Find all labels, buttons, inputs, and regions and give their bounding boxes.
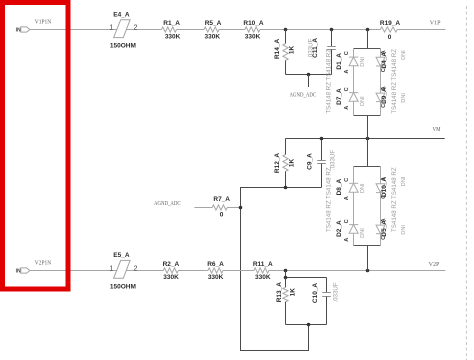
svg-text:330K: 330K — [205, 33, 221, 40]
svg-text:R2_A: R2_A — [163, 261, 180, 268]
diode D2_A (DNI) — [349, 225, 358, 234]
svg-text:AGND_ADC: AGND_ADC — [154, 200, 181, 207]
wire C10 top lead — [326, 278, 328, 293]
svg-text:TS4148 RZ: TS4148 RZ — [391, 167, 398, 199]
svg-text:1: 1 — [109, 25, 113, 32]
wire R2 to R6 — [178, 270, 208, 272]
wire rail to R14 top — [285, 30, 287, 44]
svg-text:A: A — [381, 50, 387, 54]
port V2P1N — [16, 268, 30, 274]
resistor R12_A (vertical) — [283, 155, 288, 172]
svg-text:TS4148 RZ: TS4148 RZ — [391, 200, 398, 232]
svg-text:R14_A: R14_A — [274, 38, 281, 59]
junction AGND stub — [307, 73, 311, 77]
svg-text:2: 2 — [134, 25, 138, 32]
wire R13 bottom lead — [285, 302, 287, 325]
junction top rail / C11 — [330, 28, 334, 32]
ferrite bead E5_A — [114, 260, 131, 278]
svg-text:1: 1 — [109, 266, 113, 273]
wire top rail: port to R1 — [30, 29, 161, 31]
svg-text:C: C — [381, 195, 387, 199]
svg-text:R1_A: R1_A — [163, 20, 180, 27]
wire bridge2 bottom — [354, 245, 381, 247]
wire R5 to R10 — [219, 29, 245, 31]
svg-text:IN: IN — [16, 28, 21, 34]
svg-text:C9_A: C9_A — [307, 153, 314, 170]
resistor R11_A — [254, 268, 269, 273]
svg-text:C: C — [344, 87, 350, 91]
svg-text:A: A — [381, 86, 387, 90]
svg-text:R12_A: R12_A — [274, 153, 281, 174]
svg-text:TS4148 RZ: TS4148 RZ — [326, 49, 333, 81]
resistor R13_A (vertical) — [283, 287, 288, 302]
diode D5_A (DNI) — [376, 225, 385, 234]
wire C9 top lead — [321, 139, 323, 161]
junction R7 / riser — [239, 206, 243, 210]
svg-text:.033UF: .033UF — [308, 38, 315, 59]
svg-text:TS4148 RZ: TS4148 RZ — [391, 49, 398, 81]
resistor R14_A (vertical) — [283, 44, 288, 61]
wire bridge1 right branch — [380, 49, 382, 116]
svg-text:D2_A: D2_A — [336, 220, 343, 237]
wire AGND_ADC to R7 — [194, 207, 212, 209]
wire R14 bottom — [285, 61, 287, 75]
wire feed top rail to bridge1 — [367, 30, 369, 49]
wire R13/C10 top joining — [286, 277, 327, 279]
svg-text:C: C — [381, 236, 387, 240]
diode D7_A — [349, 93, 358, 102]
wire VM rail — [286, 138, 445, 140]
svg-text:150OHM: 150OHM — [110, 283, 136, 290]
svg-text:330K: 330K — [255, 274, 271, 281]
diode D1_A — [349, 57, 358, 66]
wire bridge1 top — [354, 48, 381, 50]
svg-text:330K: 330K — [245, 33, 261, 40]
wire R1 to R5 — [177, 29, 205, 31]
svg-text:E4_A: E4_A — [113, 11, 130, 18]
diode D10_A (DNI) — [376, 184, 385, 193]
svg-text:A: A — [344, 238, 350, 242]
svg-text:C: C — [381, 104, 387, 108]
svg-text:1K: 1K — [290, 288, 297, 297]
svg-text:DNI: DNI — [360, 96, 366, 106]
wire feed bridge1 to bridge2 (through VM) — [367, 116, 369, 167]
svg-text:C: C — [344, 219, 350, 223]
svg-text:2: 2 — [134, 266, 138, 273]
wire C11 bottom lead — [331, 50, 333, 75]
svg-text:C: C — [344, 51, 350, 55]
ferrite bead E4_A — [114, 20, 131, 38]
svg-text:TS4148 RZ: TS4148 RZ — [391, 82, 398, 114]
svg-text:DNI: DNI — [360, 183, 366, 193]
svg-text:A: A — [381, 177, 387, 181]
svg-text:DNI: DNI — [401, 50, 407, 60]
svg-text:TS4148 RZ: TS4148 RZ — [326, 82, 333, 114]
svg-text:0: 0 — [388, 34, 392, 41]
svg-text:.033UF: .033UF — [333, 282, 340, 303]
resistor R19_A — [380, 27, 397, 32]
wire C11 top lead — [331, 30, 333, 47]
svg-text:TS4148 RZ: TS4148 RZ — [326, 167, 333, 199]
junction R12 bottom — [284, 186, 288, 190]
junction R13 top — [284, 276, 288, 280]
junction AGND riser / bottom combo — [307, 323, 311, 327]
resistor R6_A — [208, 268, 223, 273]
wire R12 top lead — [285, 139, 287, 155]
svg-text:A: A — [344, 106, 350, 110]
wire R14/C11 bottom joining — [286, 74, 332, 76]
wire R13/C10 bottom joining — [286, 324, 327, 326]
junction bottom rail / bridge feed — [366, 269, 370, 273]
wire rail drop to R13/C10 — [285, 271, 287, 278]
svg-text:DNI: DNI — [360, 228, 366, 238]
svg-text:330K: 330K — [163, 274, 179, 281]
svg-text:V1P1N: V1P1N — [35, 19, 52, 26]
svg-text:C: C — [381, 68, 387, 72]
junction top rail / bridge feed — [366, 28, 370, 32]
svg-text:VM: VM — [433, 126, 441, 133]
svg-text:V2P: V2P — [429, 261, 440, 268]
wire bridge1 left branch — [353, 49, 355, 116]
wire AGND_ADC stub — [308, 75, 310, 88]
wire bridge1 bottom — [354, 115, 381, 117]
junction VM / bridge feed — [366, 137, 370, 141]
svg-text:D8_A: D8_A — [336, 178, 343, 195]
svg-text:D1_A: D1_A — [336, 53, 343, 70]
svg-text:A: A — [381, 218, 387, 222]
diode D8_A (DNI) — [349, 183, 358, 192]
wire bridge2 right branch — [380, 167, 382, 246]
svg-text:TS4148 RZ: TS4148 RZ — [326, 200, 333, 232]
resistor R10_A — [245, 27, 260, 32]
junction top rail / R14 — [284, 28, 288, 32]
svg-text:C: C — [344, 178, 350, 182]
svg-text:D7_A: D7_A — [336, 88, 343, 105]
svg-text:IN: IN — [16, 268, 21, 274]
svg-text:330K: 330K — [208, 274, 224, 281]
port V1P1N — [16, 27, 30, 34]
svg-text:DNI: DNI — [401, 93, 407, 103]
svg-text:E5_A: E5_A — [113, 252, 130, 259]
svg-text:DNI: DNI — [360, 57, 366, 67]
wire R11 to V2P — [269, 270, 446, 272]
svg-text:R13_A: R13_A — [276, 282, 283, 303]
wire bottom rail: port to R2 — [30, 270, 163, 272]
svg-text:.033UF: .033UF — [330, 150, 337, 171]
svg-text:DNI: DNI — [401, 225, 407, 235]
svg-text:A: A — [344, 196, 350, 200]
wire R13 top lead — [285, 278, 287, 288]
svg-text:1K: 1K — [289, 159, 296, 168]
wire bridge2 left branch — [353, 167, 355, 246]
resistor R5_A — [204, 27, 219, 32]
svg-text:R19_A: R19_A — [380, 20, 401, 27]
svg-text:330K: 330K — [165, 33, 181, 40]
wire R19 to V1P — [397, 29, 445, 31]
svg-text:150OHM: 150OHM — [110, 43, 136, 50]
svg-text:R7_A: R7_A — [213, 196, 230, 203]
capacitor C9_A — [317, 161, 326, 164]
resistor R2_A — [163, 268, 178, 273]
wire C9 bottom lead — [321, 164, 323, 188]
svg-text:C10_A: C10_A — [312, 283, 319, 304]
resistor R7_A — [212, 205, 227, 210]
svg-text:R5_A: R5_A — [205, 20, 222, 27]
wire C10 bottom lead — [326, 297, 328, 325]
svg-text:1K: 1K — [289, 46, 296, 55]
wire bridge2 top — [354, 166, 381, 168]
wire R12/C9 bottom joining to AGND riser — [241, 188, 322, 351]
wire R6 to R11 — [223, 270, 254, 272]
svg-text:V1P: V1P — [430, 20, 441, 27]
svg-text:DNI: DNI — [401, 176, 407, 186]
sheet border (dashed page edge) — [465, 6, 467, 360]
capacitor C10_A — [322, 293, 331, 297]
svg-text:R11_A: R11_A — [253, 261, 273, 268]
wire R10 to R19 — [260, 29, 381, 31]
svg-text:R6_A: R6_A — [207, 261, 224, 268]
junction bottom rail / R13-C10 — [284, 269, 288, 273]
resistor R1_A — [162, 27, 177, 32]
wire feed bridge2 to bottom rail — [367, 246, 369, 271]
svg-text:V2P1N: V2P1N — [35, 259, 52, 266]
svg-text:A: A — [344, 70, 350, 74]
svg-text:AGND_ADC: AGND_ADC — [290, 91, 317, 98]
wire R12 bottom lead — [285, 172, 287, 188]
svg-text:R10_A: R10_A — [243, 20, 264, 27]
wire R7 to riser — [227, 207, 240, 209]
red highlight rectangle — [3, 3, 69, 290]
junction C9 top — [320, 137, 324, 141]
diode D4_A (DNI) — [376, 57, 385, 66]
diode D9_A (DNI) — [376, 93, 385, 102]
capacitor C11_A — [327, 47, 336, 50]
svg-text:0: 0 — [220, 211, 224, 218]
